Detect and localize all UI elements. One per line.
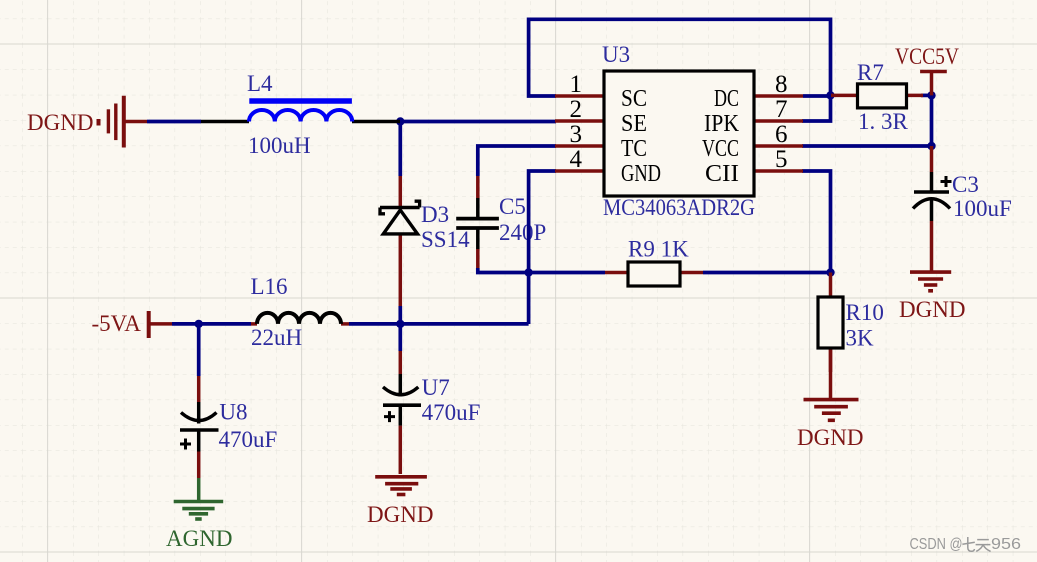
wire D3 top segment bbox=[398, 122, 402, 177]
pin name DC bbox=[714, 86, 739, 112]
svg-text:R10: R10 bbox=[846, 300, 884, 325]
node junction L4/D3 bbox=[396, 117, 404, 125]
svg-text:22uH: 22uH bbox=[251, 325, 302, 350]
resistor R9 bbox=[605, 262, 703, 286]
wire L4 right to pin2 of U3 bbox=[400, 120, 556, 124]
svg-text:GND: GND bbox=[621, 161, 661, 187]
pin 5 stub bbox=[754, 169, 803, 173]
wire R9 right to R10 node bbox=[703, 271, 831, 275]
value 470uF (U8) bbox=[219, 427, 278, 452]
svg-text:CII: CII bbox=[705, 161, 739, 187]
watermark CSDN bbox=[910, 536, 1022, 553]
resistor R10 bbox=[818, 273, 843, 373]
wire pin3 to C5 bbox=[478, 146, 556, 176]
svg-text:IPK: IPK bbox=[704, 111, 740, 137]
wire pin4 down to bottom rail bbox=[529, 171, 556, 324]
inductor L16 bbox=[251, 313, 349, 324]
ground DGND under C3 bbox=[910, 272, 951, 291]
pin 3 stub bbox=[555, 144, 604, 148]
svg-text:SC: SC bbox=[621, 86, 647, 112]
wire R7 right to VCC node bbox=[921, 94, 932, 98]
designator+value R9 1K bbox=[628, 237, 689, 262]
pin number 4 bbox=[570, 146, 583, 173]
svg-text:100uF: 100uF bbox=[953, 196, 1012, 221]
svg-text:DGND: DGND bbox=[27, 110, 93, 135]
svg-text:6: 6 bbox=[775, 121, 788, 148]
pin number 6 bbox=[775, 121, 788, 148]
pin number 2 bbox=[570, 96, 583, 123]
designator L16 bbox=[251, 274, 288, 299]
value 3K bbox=[846, 326, 875, 351]
svg-text:R7: R7 bbox=[857, 60, 884, 85]
svg-text:R9 1K: R9 1K bbox=[628, 237, 689, 262]
svg-text:U3: U3 bbox=[602, 42, 630, 67]
power port -5VA bbox=[149, 311, 172, 338]
ground AGND under U8 (green) bbox=[174, 478, 224, 519]
capacitor C3 (polarized) bbox=[913, 146, 952, 271]
IC body bbox=[604, 71, 754, 196]
svg-text:C5: C5 bbox=[499, 194, 526, 219]
designator D3 bbox=[421, 202, 449, 227]
net label DGND under C3 bbox=[899, 297, 965, 322]
svg-text:7: 7 bbox=[775, 96, 788, 123]
wire pin6 to C3 node bbox=[802, 144, 932, 148]
wire top loop pin1 to pin8/R7 bbox=[529, 19, 831, 121]
pin 8 stub bbox=[754, 94, 803, 98]
svg-text:TC: TC bbox=[621, 136, 647, 162]
net label -5VA bbox=[92, 311, 142, 336]
svg-text:470uF: 470uF bbox=[422, 400, 481, 425]
value 470uF (U7) bbox=[422, 400, 481, 425]
wire D3 bottom segment bbox=[398, 306, 402, 324]
svg-text:1. 3R: 1. 3R bbox=[858, 109, 909, 134]
power port VCC5V bbox=[920, 72, 947, 96]
pin name SC bbox=[621, 86, 647, 112]
pin 1 stub bbox=[555, 94, 604, 98]
op IC U3 MC34063ADR2G bbox=[555, 71, 803, 196]
svg-text:5: 5 bbox=[775, 146, 788, 173]
wire bottom rail D3 node to pin4 riser bbox=[400, 322, 528, 326]
svg-text:-5VA: -5VA bbox=[92, 311, 142, 336]
wire VCC node down to pin6 node bbox=[930, 95, 934, 146]
svg-text:AGND: AGND bbox=[166, 526, 232, 551]
node junction R7/VCC5V bbox=[927, 91, 935, 99]
svg-text:4: 4 bbox=[570, 146, 583, 173]
node junction pin8/R7/loop bbox=[826, 91, 834, 99]
svg-text:VCC5V: VCC5V bbox=[895, 44, 959, 69]
value 100uF (C3) bbox=[953, 196, 1012, 221]
wire -5VA rail to L16 bbox=[172, 322, 251, 326]
svg-text:100uH: 100uH bbox=[248, 133, 311, 158]
ground DGND under U7 bbox=[375, 426, 427, 495]
designator R7 bbox=[857, 60, 884, 85]
svg-text:2: 2 bbox=[570, 96, 583, 123]
wire L16 right to D3 node bbox=[349, 322, 400, 326]
wire pin5 down to R10 node bbox=[802, 171, 831, 273]
capacitor U7 (polarized) bbox=[383, 351, 421, 426]
net label DGND left bbox=[27, 110, 93, 135]
svg-text:3: 3 bbox=[570, 121, 583, 148]
node junction D3/U7/rail bbox=[396, 320, 404, 328]
pin number 7 bbox=[775, 96, 788, 123]
value 100uH bbox=[248, 133, 311, 158]
pin name VCC bbox=[702, 136, 739, 162]
pin 7 stub bbox=[754, 119, 803, 123]
net label DGND under U7 bbox=[367, 502, 433, 527]
svg-text:DGND: DGND bbox=[899, 297, 965, 322]
designator C5 bbox=[499, 194, 526, 219]
svg-text:3K: 3K bbox=[846, 326, 875, 351]
value MC34063ADR2G bbox=[603, 195, 755, 220]
diode D3 (schottky) bbox=[380, 176, 420, 306]
svg-text:240P: 240P bbox=[499, 220, 546, 245]
svg-text:SS14: SS14 bbox=[421, 227, 470, 252]
svg-text:D3: D3 bbox=[421, 202, 449, 227]
pin number 1 bbox=[570, 71, 583, 98]
svg-text:CSDN @: CSDN @ bbox=[910, 536, 963, 553]
value label 240P (under wire) bbox=[499, 220, 546, 245]
designator R10 bbox=[846, 300, 884, 325]
wire pin8 to loop node bbox=[803, 94, 831, 98]
svg-text:U8: U8 bbox=[219, 400, 247, 425]
wire DGND stub to L4 (net at y=121.5) bbox=[147, 120, 201, 124]
pin name CII bbox=[705, 161, 739, 187]
capacitor C5 bbox=[456, 176, 499, 268]
pin number 5 bbox=[775, 146, 788, 173]
svg-text:SE: SE bbox=[621, 111, 647, 137]
svg-text:DGND: DGND bbox=[367, 502, 433, 527]
capacitor U8 (polarized) bbox=[180, 376, 219, 478]
pin name GND bbox=[621, 161, 661, 187]
pin 4 stub bbox=[555, 169, 604, 173]
node junction pin6/C3 bbox=[927, 142, 935, 150]
svg-text:956: 956 bbox=[991, 536, 1021, 553]
node junction R9/R10/pin5 bbox=[826, 268, 834, 276]
designator U7 bbox=[422, 375, 450, 400]
wire U8 top bbox=[197, 324, 201, 376]
designator L4 bbox=[247, 71, 273, 96]
wire R9 left lead to node bbox=[529, 271, 605, 275]
pin name SE bbox=[621, 111, 647, 137]
wire U7 top bbox=[398, 324, 402, 351]
pin 6 stub bbox=[754, 144, 803, 148]
svg-text:MC34063ADR2G: MC34063ADR2G bbox=[603, 195, 755, 220]
wire C5 bottom to R9 node bbox=[478, 268, 529, 273]
node junction C5/R9/pin4 bbox=[524, 268, 532, 276]
svg-text:C3: C3 bbox=[952, 172, 979, 197]
net label AGND bbox=[166, 526, 232, 551]
svg-text:U7: U7 bbox=[422, 375, 450, 400]
pin 2 stub bbox=[555, 119, 604, 123]
node junction -5VA/U8 bbox=[195, 320, 203, 328]
ground DGND left (signal ground) bbox=[99, 96, 148, 148]
designator U3 bbox=[602, 42, 630, 67]
svg-text:VCC: VCC bbox=[702, 136, 739, 162]
pin number 8 bbox=[775, 71, 788, 98]
designator C3 bbox=[952, 172, 979, 197]
value 22uH bbox=[251, 325, 302, 350]
svg-text:DC: DC bbox=[714, 86, 739, 112]
resistor R7 bbox=[831, 84, 923, 108]
svg-text:470uF: 470uF bbox=[219, 427, 278, 452]
net label VCC5V bbox=[895, 44, 959, 69]
svg-text:L4: L4 bbox=[247, 71, 273, 96]
pin name IPK bbox=[704, 111, 740, 137]
svg-text:L16: L16 bbox=[251, 274, 288, 299]
value 1.3R bbox=[858, 109, 909, 134]
net label DGND under R10 bbox=[797, 425, 863, 450]
inductor L4 bbox=[201, 101, 400, 122]
svg-text:8: 8 bbox=[775, 71, 788, 98]
pin number 3 bbox=[570, 121, 583, 148]
designator U8 bbox=[219, 400, 247, 425]
ground DGND under R10 bbox=[804, 348, 859, 420]
pin name TC bbox=[621, 136, 647, 162]
svg-text:1: 1 bbox=[570, 71, 583, 98]
value SS14 bbox=[421, 227, 470, 252]
svg-text:DGND: DGND bbox=[797, 425, 863, 450]
